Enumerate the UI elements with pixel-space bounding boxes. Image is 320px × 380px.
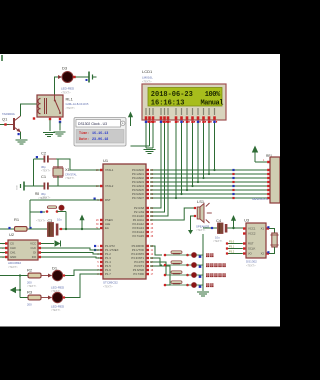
battery power terminal	[88, 72, 90, 83]
wire speaker to ground arrow	[191, 216, 195, 227]
LCD LM016L body	[142, 84, 226, 120]
svg-text:C2: C2	[41, 151, 47, 156]
P0 bus wires	[150, 169, 267, 171]
svg-text:200: 200	[27, 281, 32, 285]
capacitor C2	[36, 158, 44, 160]
svg-text:<TEXT>: <TEXT>	[38, 197, 48, 200]
svg-text:100%: 100%	[205, 91, 221, 99]
junction reset net	[65, 228, 67, 230]
svg-text:D1: D1	[52, 266, 58, 271]
svg-text:LED-RED: LED-RED	[51, 286, 65, 290]
svg-text:SCLK: SCLK	[248, 247, 255, 251]
junction R1 left	[8, 227, 10, 229]
svg-text:EA: EA	[105, 226, 109, 230]
pin speaker bottom	[194, 215, 196, 217]
svg-text:<TEXT>: <TEXT>	[142, 80, 152, 84]
svg-text:+: +	[122, 122, 124, 126]
pin Q1 base	[4, 123, 6, 125]
svg-text:CS: CS	[10, 242, 14, 246]
pin D3 cathode	[73, 76, 75, 78]
svg-text:2018-06-23: 2018-06-23	[151, 91, 193, 99]
svg-text:R2: R2	[27, 268, 33, 273]
svg-text:P0.7/AD7: P0.7/AD7	[132, 196, 144, 200]
svg-text:G2RL-1A-B-CF-DC5: G2RL-1A-B-CF-DC5	[66, 103, 90, 106]
svg-text:Q1: Q1	[2, 117, 8, 122]
svg-text:XTAL1: XTAL1	[105, 168, 114, 172]
LCD screen	[148, 88, 222, 107]
power arrow RP1	[252, 146, 258, 153]
power arrow above popup	[130, 117, 132, 126]
wire U2 DI to P1.2	[41, 253, 100, 255]
LCD pin pads	[145, 116, 148, 119]
LED D3	[62, 72, 73, 83]
svg-text:LED-RED: LED-RED	[61, 87, 75, 91]
wire C4 row left	[203, 227, 217, 229]
svg-text:XTAL2: XTAL2	[105, 184, 114, 188]
wire U2 DO to P1.3	[41, 257, 100, 258]
junction RST blue	[94, 198, 96, 200]
wire X1 to crystal	[269, 229, 275, 234]
svg-text:DS1302 Clock - U3: DS1302 Clock - U3	[78, 122, 107, 126]
pin relay coil-bottom	[49, 118, 51, 120]
svg-text:RST: RST	[248, 242, 254, 246]
respack RP1 body	[270, 157, 280, 203]
svg-text:<TEXT>: <TEXT>	[8, 265, 18, 269]
svg-text:<TEXT>: <TEXT>	[66, 107, 76, 110]
svg-text:200: 200	[27, 303, 32, 307]
svg-text:R3: R3	[27, 290, 33, 295]
MCU right pins	[147, 169, 149, 171]
svg-text:<TEXT>: <TEXT>	[51, 309, 61, 312]
ground terminal left	[23, 182, 25, 191]
ground LCD supply	[144, 149, 156, 151]
svg-text:P1.7: P1.7	[105, 272, 111, 276]
wire D2 to P1.7	[65, 274, 100, 298]
svg-text:<TEXT>: <TEXT>	[61, 91, 71, 95]
svg-text:Date:: Date:	[79, 138, 89, 142]
svg-text:U2: U2	[9, 232, 15, 237]
popup header	[76, 120, 121, 128]
wire U2 VCC arrow	[41, 243, 54, 245]
svg-text:R8: R8	[35, 192, 39, 196]
svg-text:<TEXT>: <TEXT>	[246, 264, 256, 268]
svg-text:CLK: CLK	[31, 246, 37, 250]
MCU U1 body	[103, 164, 146, 279]
svg-text:ADC0832: ADC0832	[8, 261, 21, 265]
svg-text:CH0: CH0	[10, 246, 16, 250]
wire LED rail	[0, 275, 20, 277]
svg-text:X1: X1	[65, 167, 71, 172]
svg-text:P3.2: P3.2	[229, 250, 235, 253]
svg-text:C4: C4	[216, 218, 222, 223]
ground under Q1	[16, 139, 28, 141]
svg-text:P2.7/A15: P2.7/A15	[132, 234, 144, 238]
svg-text:RESPACK-8: RESPACK-8	[252, 197, 268, 201]
power arrow on EA row	[81, 220, 83, 229]
svg-text:D3: D3	[62, 66, 68, 71]
top letterbox bar	[0, 0, 280, 54]
wire relay-switch to LED anode	[55, 77, 62, 96]
wire LCD VEE down	[152, 123, 154, 148]
resistor R2	[20, 275, 28, 277]
bottom letterbox bar	[0, 327, 280, 380]
wire caps left rail	[34, 158, 44, 160]
svg-text:P3.0: P3.0	[229, 240, 235, 243]
pin relay coil-left	[33, 117, 35, 119]
svg-text:U3: U3	[244, 218, 250, 223]
wire LED to battery	[76, 76, 89, 78]
wire D1 to P1.6	[65, 270, 100, 276]
svg-text:STC89C52: STC89C52	[103, 281, 118, 285]
wire relay switch to ground	[59, 122, 61, 131]
corner mark	[1, 55, 3, 61]
transistor Q1	[13, 118, 15, 130]
RP1 pins	[267, 161, 269, 163]
button connect wires	[150, 246, 162, 255]
LED D1	[48, 274, 52, 278]
svg-text:DI: DI	[33, 251, 36, 255]
wire RP1 pin1	[255, 161, 267, 163]
button ground rail	[202, 234, 204, 291]
junction emitter	[18, 133, 20, 135]
reset button cap	[59, 205, 64, 210]
svg-text:16:16:13: 16:16:13	[151, 99, 185, 107]
svg-text:DS1302: DS1302	[246, 260, 257, 264]
ground buttons	[197, 291, 209, 293]
svg-text:<TEXT>: <TEXT>	[196, 229, 206, 232]
svg-text:<TEXT>: <TEXT>	[65, 177, 75, 180]
svg-text:23-06-18: 23-06-18	[92, 138, 108, 142]
svg-text:TAD900A: TAD900A	[2, 112, 15, 116]
svg-text:<TEXT>: <TEXT>	[103, 285, 113, 289]
svg-text:VCC2: VCC2	[248, 232, 256, 236]
pin speaker top	[194, 207, 196, 209]
RTC U3 body	[246, 223, 266, 258]
wire X2 to crystal	[269, 247, 275, 254]
wire XTAL2 net	[34, 185, 44, 187]
wire XTAL1 net	[56, 159, 100, 170]
crystal X1	[57, 159, 59, 168]
wire VDD to power arrow	[131, 145, 150, 147]
relay RL1 body	[37, 95, 63, 117]
svg-text:RL1: RL1	[66, 97, 74, 102]
wire P2.3 to speaker	[150, 208, 194, 220]
capacitor C3	[48, 223, 54, 237]
crystal Y1	[272, 233, 277, 247]
MCU left pins	[100, 169, 102, 171]
pin relay switch-bottom	[59, 118, 61, 120]
resistor R1	[15, 227, 28, 232]
svg-text:GND: GND	[17, 185, 19, 190]
svg-text:LM016L: LM016L	[142, 76, 153, 80]
wire LCD VDD down	[149, 123, 151, 146]
svg-text:VCC1: VCC1	[248, 227, 256, 231]
popup DS1302 clock box	[74, 118, 126, 147]
svg-text:30p: 30p	[41, 165, 46, 169]
ground under relay coil	[43, 132, 55, 134]
push buttons group	[164, 254, 167, 257]
wire R1C3 row	[0, 228, 14, 230]
svg-text:CRYSTAL: CRYSTAL	[65, 173, 77, 177]
LED D2	[48, 296, 52, 300]
svg-text:10u: 10u	[57, 218, 62, 222]
svg-text:R1: R1	[14, 217, 20, 222]
LCD data drop wires	[175, 123, 177, 198]
svg-text:CH1: CH1	[10, 251, 16, 255]
svg-text:30p: 30p	[41, 192, 46, 196]
svg-text:Time:: Time:	[79, 131, 89, 136]
svg-text:GND: GND	[10, 255, 16, 259]
wire button left	[30, 211, 45, 213]
svg-text:VCC: VCC	[30, 242, 36, 246]
capacitor C1	[36, 185, 44, 187]
wire RST net	[30, 199, 100, 201]
ADC U2 body	[8, 240, 38, 260]
wire U2 CLK to P1.1	[41, 248, 100, 250]
wire base from left	[0, 124, 9, 126]
wire relay coil bottom to ground	[49, 120, 51, 131]
power arrow left	[10, 287, 16, 293]
wire LCD VSS down	[145, 123, 147, 148]
speaker LS1	[197, 207, 200, 219]
U3 net label wires	[228, 243, 243, 245]
svg-text:X2: X2	[261, 252, 265, 256]
svg-text:X1: X1	[261, 227, 265, 231]
svg-text:<TEXT>: <TEXT>	[36, 220, 46, 223]
relay coil	[38, 99, 41, 104]
LCD control drop wires	[150, 123, 161, 208]
popup body	[76, 130, 124, 144]
LCD pin labels	[145, 108, 146, 115]
relay switch	[54, 95, 56, 100]
capacitor C4	[218, 223, 224, 234]
svg-text:RST: RST	[105, 198, 111, 202]
ground arrow speaker	[190, 227, 192, 230]
wire VSS-VEE join	[146, 147, 153, 149]
junction P1 blue marks	[94, 245, 96, 247]
svg-text:P3.1: P3.1	[229, 245, 235, 248]
svg-text:16-16-13: 16-16-13	[92, 132, 108, 136]
svg-text:LCD1: LCD1	[142, 69, 153, 74]
ground under relay switch	[54, 131, 66, 133]
svg-text:C1: C1	[41, 174, 47, 179]
pin C3 right	[60, 228, 62, 230]
reset button K1	[47, 207, 57, 209]
svg-text:LED-RED: LED-RED	[51, 305, 65, 309]
svg-text:Manual: Manual	[201, 99, 224, 107]
svg-text:P3.7/RD: P3.7/RD	[133, 272, 144, 276]
svg-text:10u: 10u	[215, 236, 220, 240]
P0 junction marks	[232, 169, 234, 171]
svg-text:<TEXT>: <TEXT>	[27, 285, 37, 288]
LCD pin terminals	[145, 121, 147, 123]
power arrow U3	[233, 221, 235, 229]
svg-text:<TEXT>: <TEXT>	[41, 170, 51, 173]
wire C4 to U3	[227, 227, 243, 229]
svg-text:<TEXT>: <TEXT>	[213, 240, 223, 243]
wire Q1 emitter to ground	[20, 132, 22, 139]
junction C2 left	[36, 156, 38, 158]
resistor R3	[20, 297, 28, 299]
wire Q1 collector to relay coil	[21, 104, 39, 116]
svg-text:U1: U1	[103, 158, 109, 163]
